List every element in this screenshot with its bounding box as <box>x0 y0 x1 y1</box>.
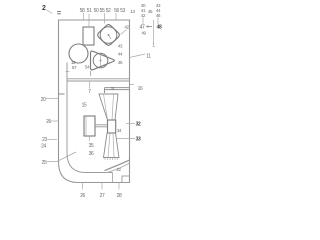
svg-text:50: 50 <box>94 8 99 14</box>
svg-text:44: 44 <box>118 52 123 57</box>
svg-text:42: 42 <box>124 25 129 30</box>
svg-text:34: 34 <box>117 128 122 133</box>
svg-text:57: 57 <box>72 65 77 70</box>
svg-text:36: 36 <box>89 151 94 157</box>
svg-text:1: 1 <box>152 43 155 49</box>
svg-text:52: 52 <box>106 8 111 14</box>
svg-text:26: 26 <box>80 193 85 199</box>
svg-text:56: 56 <box>114 8 119 14</box>
svg-text:35: 35 <box>89 143 94 149</box>
svg-text:58: 58 <box>80 8 85 14</box>
svg-text:24: 24 <box>41 144 46 150</box>
svg-text:55: 55 <box>100 8 105 14</box>
svg-text:53: 53 <box>120 8 125 14</box>
svg-text:49: 49 <box>141 31 146 36</box>
svg-text:48: 48 <box>157 25 162 31</box>
svg-text:2: 2 <box>42 5 46 12</box>
svg-text:45: 45 <box>118 60 123 65</box>
svg-text:23: 23 <box>42 137 47 143</box>
svg-text:16: 16 <box>138 86 143 92</box>
svg-text:32: 32 <box>136 122 141 128</box>
svg-text:51: 51 <box>87 8 92 14</box>
svg-text:42: 42 <box>141 13 146 18</box>
svg-text:25: 25 <box>42 160 47 166</box>
svg-text:45: 45 <box>148 9 153 14</box>
svg-text:27: 27 <box>100 193 105 199</box>
svg-text:21: 21 <box>46 119 51 125</box>
svg-text:15: 15 <box>82 103 87 109</box>
svg-text:28: 28 <box>117 193 122 199</box>
svg-text:54: 54 <box>85 65 90 70</box>
svg-text:7: 7 <box>88 89 91 95</box>
svg-text:11: 11 <box>146 54 151 60</box>
svg-text:13: 13 <box>130 9 135 14</box>
svg-text:46: 46 <box>156 13 161 18</box>
svg-text:33: 33 <box>136 137 141 143</box>
svg-text:20: 20 <box>41 97 46 103</box>
svg-text:43: 43 <box>118 44 123 49</box>
